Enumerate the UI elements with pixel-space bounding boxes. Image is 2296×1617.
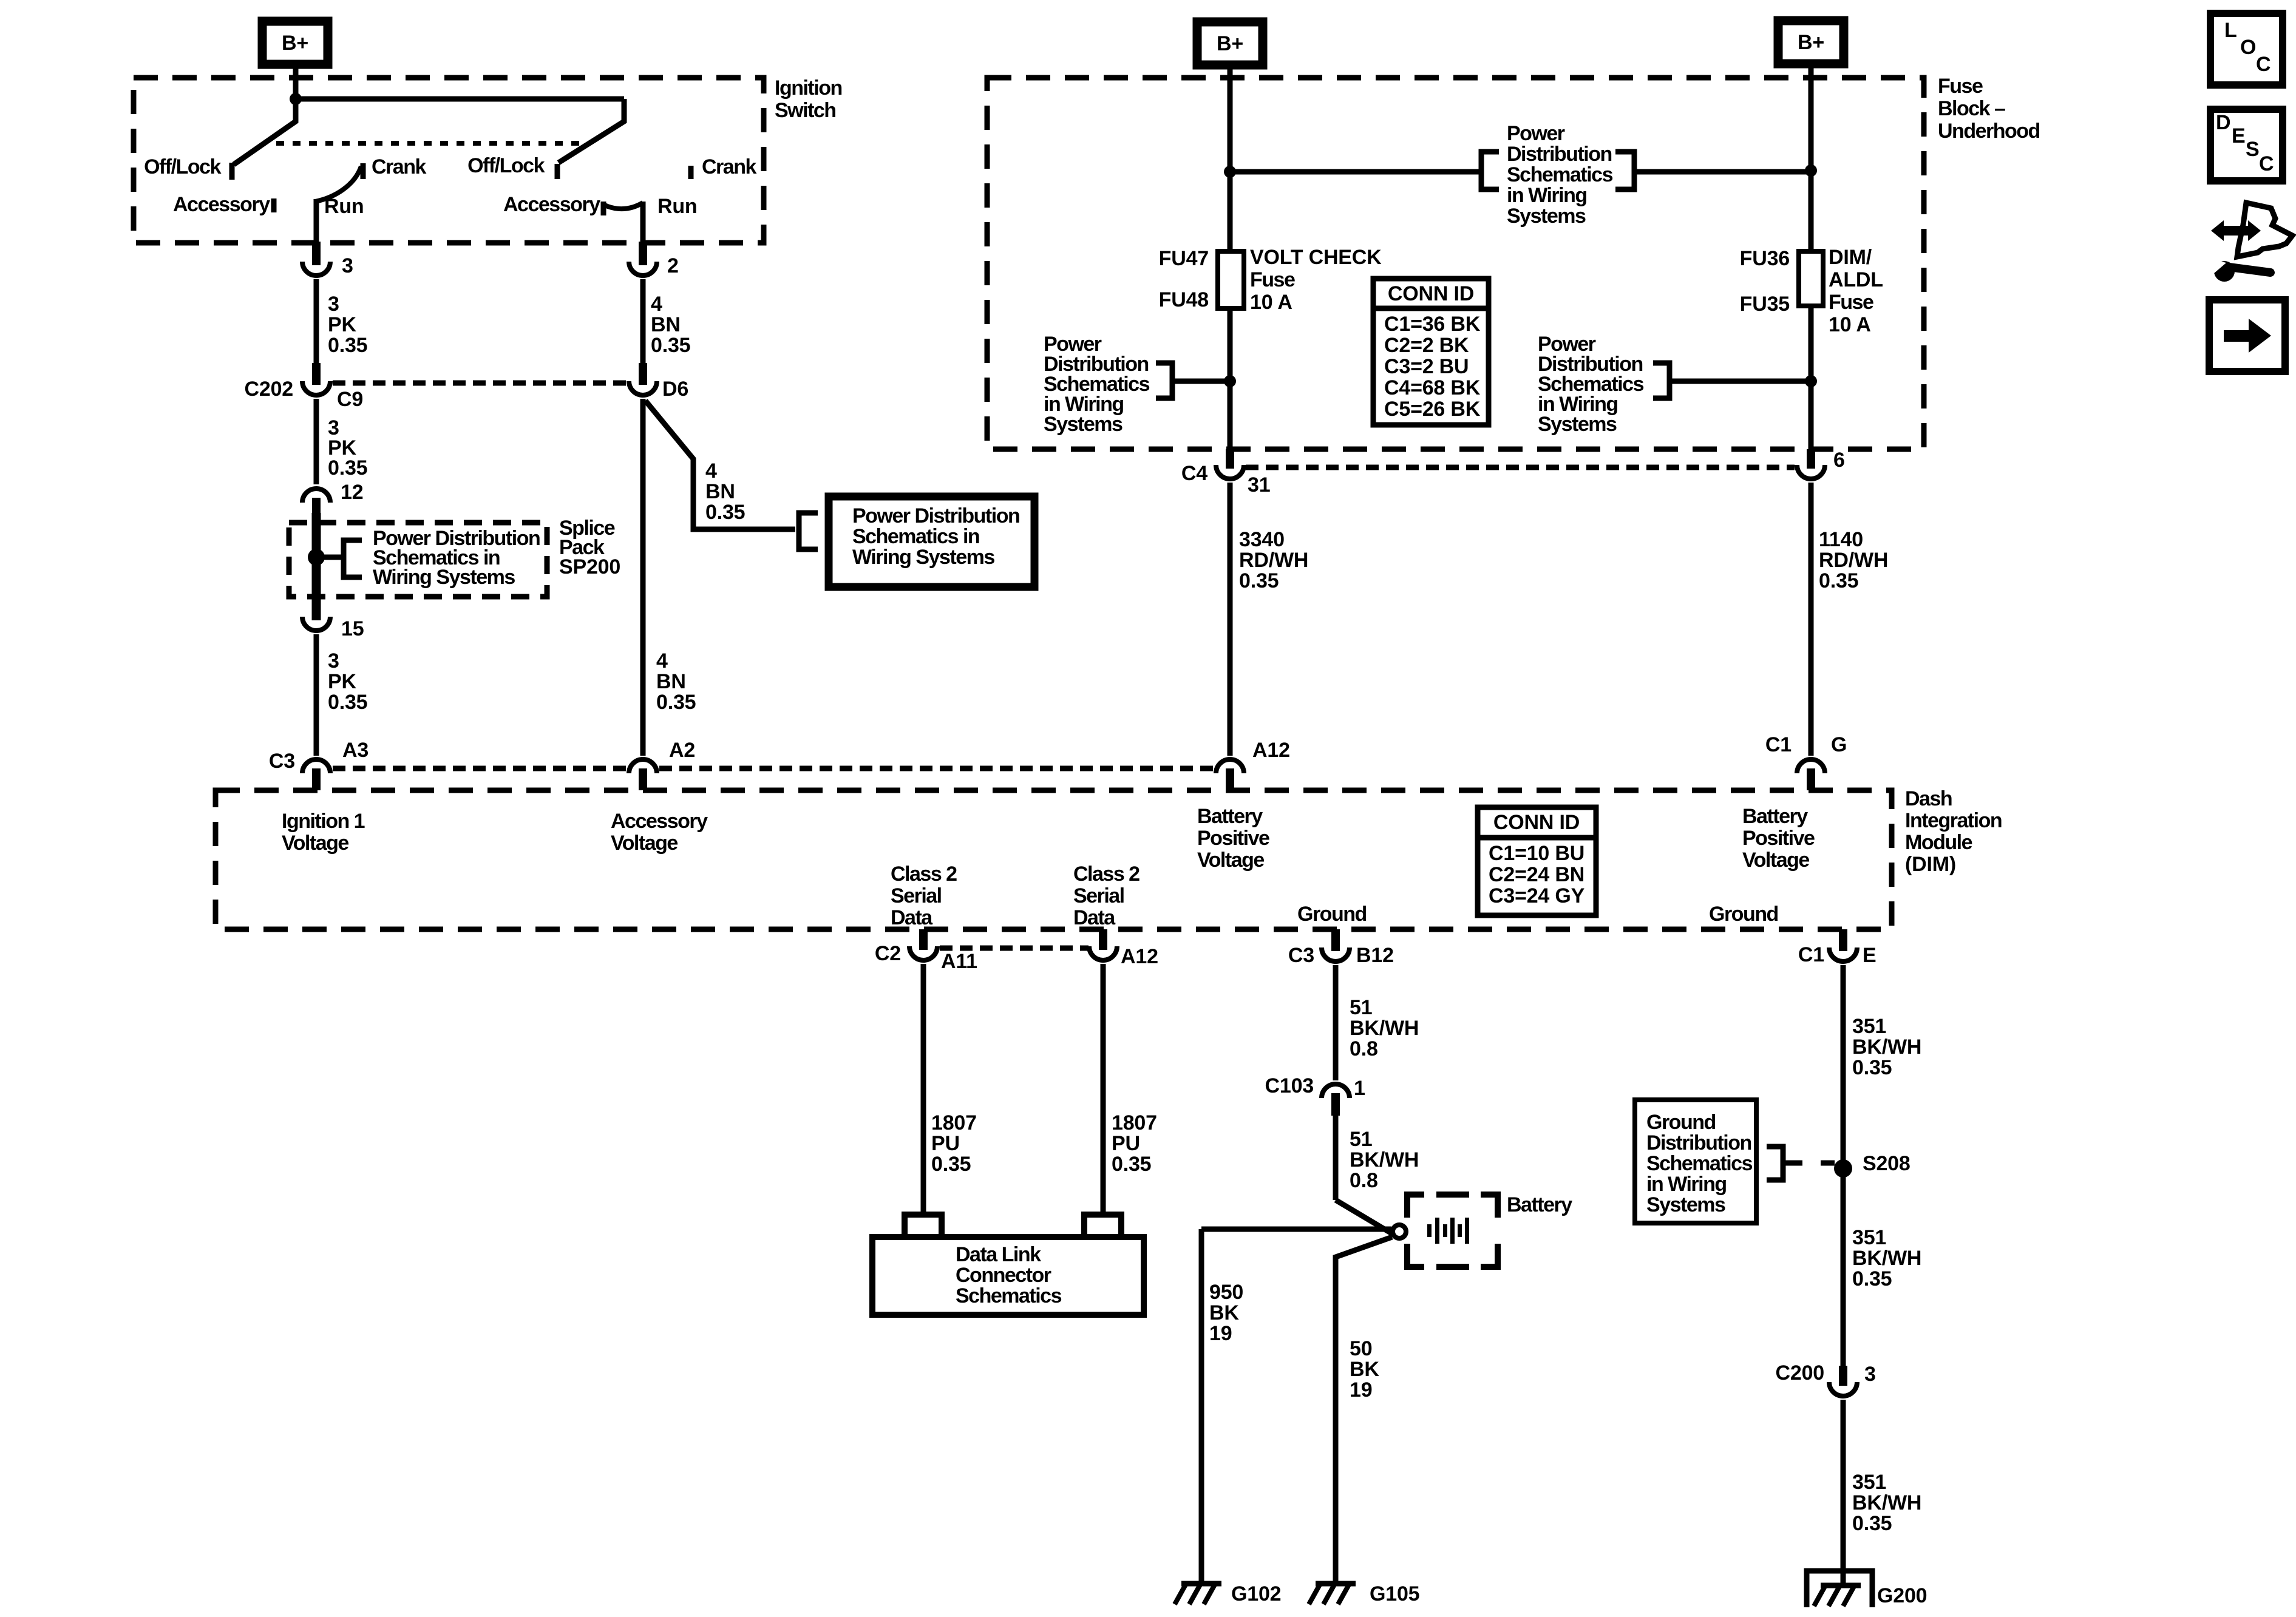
svg-text:FU48: FU48	[1159, 288, 1209, 311]
dotted connector line C202	[333, 381, 628, 386]
contact tick Off/Lock left	[229, 163, 235, 180]
connector pin A12 (DLC)	[1099, 929, 1107, 950]
svg-text:0.8: 0.8	[1350, 1037, 1378, 1060]
bracket power distribution (left)	[1156, 363, 1172, 398]
svg-text:0.35: 0.35	[328, 691, 367, 714]
svg-text:O: O	[2240, 36, 2256, 59]
svg-text:C2=24 BN: C2=24 BN	[1489, 863, 1584, 886]
svg-text:C2: C2	[875, 942, 901, 965]
svg-text:0.35: 0.35	[1239, 569, 1279, 592]
svg-text:19: 19	[1209, 1322, 1232, 1345]
wire 4 BN 0.35 (pin2 to D6)	[640, 279, 646, 363]
svg-text:BK/WH: BK/WH	[1852, 1247, 1921, 1270]
svg-text:351: 351	[1852, 1471, 1886, 1494]
svg-text:51: 51	[1350, 996, 1372, 1019]
node junction right feed	[1805, 164, 1817, 177]
dotted connector line C4 to 6	[1246, 465, 1795, 470]
svg-text:Wiring Systems: Wiring Systems	[852, 546, 994, 569]
svg-text:Block –: Block –	[1938, 97, 2005, 120]
wire 1807 PU 0.35 (A11)	[921, 964, 926, 1214]
splice pack SP200 box	[289, 523, 547, 597]
power symbol B+ (fuse FU36 feed)	[1778, 21, 1844, 64]
contact tick Accessory right	[601, 202, 606, 215]
svg-text:BK/WH: BK/WH	[1350, 1148, 1419, 1171]
svg-text:351: 351	[1852, 1015, 1886, 1038]
svg-text:Off/Lock: Off/Lock	[467, 154, 545, 177]
svg-text:S: S	[2246, 138, 2259, 161]
svg-text:51: 51	[1350, 1128, 1372, 1151]
connector C202 pin D6	[639, 363, 647, 371]
wire 1807 PU 0.35 (A12)	[1101, 964, 1106, 1214]
tick bracket to S208	[1784, 1161, 1802, 1166]
svg-text:D: D	[2216, 111, 2230, 134]
connector C202 pin C9	[312, 363, 321, 371]
svg-text:C202: C202	[245, 378, 293, 401]
connector pin 2 (ignition switch)	[639, 242, 647, 265]
node: B+ junction in ignition switch	[290, 93, 302, 105]
svg-text:Accessory: Accessory	[173, 193, 270, 216]
svg-text:C3=2 BU: C3=2 BU	[1384, 355, 1469, 378]
svg-text:Dash: Dash	[1905, 787, 1952, 810]
wire diagonal to battery junction	[1336, 1200, 1393, 1234]
connector C3 pin B12	[1331, 929, 1340, 951]
wire 3 PK 0.35 (pin3 to C202)	[314, 279, 319, 363]
svg-text:Ground: Ground	[1297, 903, 1367, 926]
svg-text:1: 1	[1354, 1077, 1365, 1100]
svg-text:0.35: 0.35	[1852, 1267, 1892, 1290]
svg-text:BK/WH: BK/WH	[1852, 1491, 1921, 1514]
svg-text:6: 6	[1833, 449, 1845, 472]
svg-text:BN: BN	[651, 313, 681, 336]
svg-text:Positive: Positive	[1197, 827, 1269, 850]
svg-text:Crank: Crank	[372, 155, 426, 178]
svg-text:BN: BN	[656, 670, 686, 693]
connector pin 6	[1807, 449, 1815, 469]
svg-text:C200: C200	[1776, 1361, 1824, 1385]
svg-text:3: 3	[328, 293, 339, 316]
svg-text:G200: G200	[1877, 1584, 1927, 1607]
wire 3 PK 0.35 (15 to A3)	[314, 634, 319, 756]
wiper curve Run right	[605, 203, 643, 209]
svg-text:15: 15	[341, 617, 364, 640]
svg-text:(DIM): (DIM)	[1905, 853, 1956, 876]
svg-text:Positive: Positive	[1742, 827, 1815, 850]
svg-text:Schematics in: Schematics in	[852, 525, 979, 548]
svg-text:3: 3	[342, 254, 353, 277]
wire junction to reference bracket	[1230, 169, 1481, 175]
wire 4 BN 0.35 (D6 to A2)	[640, 399, 646, 756]
svg-text:3: 3	[328, 649, 339, 673]
svg-text:C1: C1	[1798, 943, 1824, 966]
bracket ground distribution	[1767, 1147, 1783, 1180]
mechanical linkage dotted line	[276, 141, 582, 146]
ground distribution reference box	[1635, 1100, 1756, 1223]
connector C1 pin E	[1839, 929, 1847, 951]
wire B+ to fuse block (left)	[1228, 63, 1233, 172]
svg-text:Ground: Ground	[1646, 1111, 1716, 1134]
wire B+ to ignition switch	[293, 62, 299, 99]
svg-text:Power: Power	[1507, 122, 1565, 145]
svg-text:SP200: SP200	[559, 555, 620, 578]
svg-text:Ground: Ground	[1709, 903, 1778, 926]
svg-text:PU: PU	[931, 1132, 960, 1155]
connector pin A12 (DIM top)	[1216, 759, 1244, 773]
contact tick Crank left	[361, 163, 366, 179]
svg-text:A12: A12	[1252, 739, 1290, 762]
wire down to G102	[1199, 1229, 1204, 1584]
wire junction to right reference	[1671, 379, 1811, 384]
wire ignition feed bus	[296, 97, 624, 102]
svg-text:3: 3	[1864, 1363, 1876, 1386]
svg-text:BN: BN	[705, 480, 735, 503]
svg-text:Crank: Crank	[702, 155, 756, 178]
svg-text:C4=68 BK: C4=68 BK	[1384, 376, 1481, 399]
svg-text:4: 4	[656, 649, 668, 673]
svg-text:A2: A2	[669, 739, 695, 762]
svg-text:Voltage: Voltage	[282, 832, 348, 855]
contact tick Accessory left	[271, 198, 277, 212]
svg-text:ALDL: ALDL	[1829, 268, 1883, 291]
svg-text:351: 351	[1852, 1226, 1886, 1249]
svg-text:CONN ID: CONN ID	[1493, 811, 1580, 834]
wire 51 BK/WH 0.8 (B12 to C103)	[1333, 965, 1339, 1080]
svg-text:Fuse: Fuse	[1938, 75, 1983, 98]
svg-text:C4: C4	[1181, 462, 1207, 485]
wire Run left to pin 3	[314, 199, 319, 243]
svg-text:PK: PK	[328, 670, 356, 693]
battery symbol plates	[1427, 1224, 1432, 1237]
table CONN ID (fuse block)	[1373, 279, 1489, 425]
power symbol B+ (fuse FU47 feed)	[1197, 22, 1263, 65]
svg-text:4: 4	[705, 459, 717, 483]
wire 3340 RD/WH 0.35	[1228, 483, 1233, 756]
svg-text:2: 2	[667, 254, 679, 277]
wire Run right to pin 2	[640, 202, 646, 243]
svg-text:A11: A11	[941, 950, 977, 973]
ground G200	[1821, 1583, 1861, 1588]
svg-text:C5=26 BK: C5=26 BK	[1384, 398, 1481, 421]
svg-text:L: L	[2224, 19, 2237, 42]
svg-text:Schematics: Schematics	[956, 1284, 1062, 1307]
svg-text:FU36: FU36	[1740, 247, 1790, 270]
svg-text:4: 4	[651, 293, 662, 316]
svg-text:E: E	[1863, 944, 1876, 967]
svg-text:C: C	[2259, 152, 2274, 175]
reference bracket (power distribution box)	[799, 513, 818, 549]
svg-text:Fuse: Fuse	[1250, 268, 1295, 291]
node junction below FU47	[1224, 375, 1236, 387]
battery junction ring terminal	[1393, 1225, 1406, 1238]
svg-text:G102: G102	[1231, 1582, 1281, 1605]
icon DESC	[2210, 109, 2283, 181]
power symbol B+ (ignition feed)	[262, 21, 328, 64]
wire through fuse FU47	[1228, 172, 1233, 251]
svg-text:0.8: 0.8	[1350, 1169, 1378, 1192]
svg-text:C: C	[2256, 53, 2271, 76]
data link connector box	[872, 1237, 1144, 1315]
node splice S208	[1834, 1159, 1852, 1178]
svg-text:in Wiring: in Wiring	[1507, 184, 1587, 207]
svg-text:D6: D6	[662, 378, 688, 401]
svg-text:Voltage: Voltage	[1742, 849, 1809, 872]
svg-text:Accessory: Accessory	[611, 810, 708, 833]
svg-text:0.35: 0.35	[1852, 1512, 1892, 1535]
wire branch D6 to power distribution reference	[645, 401, 795, 529]
svg-text:BK/WH: BK/WH	[1350, 1017, 1419, 1040]
wire 351 BK/WH 0.35 (E to S208)	[1841, 965, 1846, 1168]
svg-text:B+: B+	[282, 32, 308, 55]
svg-text:Underhood: Underhood	[1938, 120, 2040, 143]
svg-text:Module: Module	[1905, 831, 1972, 854]
svg-text:RD/WH: RD/WH	[1239, 549, 1308, 572]
dash integration module box	[216, 790, 1892, 929]
ignition switch box	[134, 78, 764, 243]
icon adjust hand	[2237, 203, 2292, 257]
svg-text:S208: S208	[1863, 1152, 1911, 1175]
svg-text:PK: PK	[328, 313, 356, 336]
svg-text:DIM/: DIM/	[1829, 246, 1872, 269]
svg-text:Systems: Systems	[1538, 413, 1617, 436]
svg-text:B+: B+	[1217, 32, 1243, 55]
svg-text:CONN ID: CONN ID	[1388, 282, 1474, 305]
svg-text:Class 2: Class 2	[891, 863, 957, 886]
fuse FU47 VOLT CHECK	[1218, 251, 1244, 308]
svg-text:10 A: 10 A	[1250, 291, 1292, 314]
terminal socket DLC left	[905, 1215, 942, 1237]
icon arrow box	[2209, 300, 2285, 371]
wiper curve Run left	[315, 166, 361, 202]
svg-text:C103: C103	[1265, 1074, 1314, 1097]
svg-text:0.35: 0.35	[656, 691, 696, 714]
svg-text:B12: B12	[1356, 944, 1394, 967]
svg-text:0.35: 0.35	[328, 334, 367, 357]
svg-text:Off/Lock: Off/Lock	[144, 155, 221, 178]
svg-text:19: 19	[1350, 1378, 1372, 1402]
svg-text:Ignition: Ignition	[775, 76, 842, 100]
wiper wire left switch (Off/Lock)	[234, 99, 296, 164]
svg-text:Class 2: Class 2	[1073, 863, 1140, 886]
svg-text:Schematics: Schematics	[1507, 163, 1613, 186]
wire junction to left reference	[1174, 379, 1230, 384]
svg-text:0.35: 0.35	[651, 334, 690, 357]
ground G102	[1181, 1581, 1221, 1587]
svg-text:Battery: Battery	[1742, 805, 1808, 828]
svg-text:Serial: Serial	[1073, 884, 1124, 907]
wire B+ to fuse block (right)	[1809, 61, 1814, 171]
svg-text:VOLT CHECK: VOLT CHECK	[1250, 246, 1382, 269]
svg-text:50: 50	[1350, 1337, 1372, 1360]
svg-text:0.35: 0.35	[328, 456, 367, 480]
svg-text:Data: Data	[891, 906, 933, 929]
icon wrench	[2214, 261, 2235, 282]
dotted connector line A3-A2-A12	[333, 766, 628, 771]
svg-text:Voltage: Voltage	[611, 832, 678, 855]
svg-text:10 A: 10 A	[1829, 313, 1871, 336]
svg-text:Distribution: Distribution	[1646, 1131, 1751, 1154]
svg-text:in Wiring: in Wiring	[1646, 1173, 1727, 1196]
svg-text:FU47: FU47	[1159, 247, 1209, 270]
wire through fuse FU36	[1809, 171, 1814, 251]
svg-text:1140: 1140	[1819, 528, 1863, 551]
node junction left feed	[1224, 166, 1236, 178]
svg-text:31: 31	[1248, 473, 1270, 497]
bracket power distribution (right)	[1653, 363, 1669, 398]
svg-text:A12: A12	[1121, 945, 1158, 968]
svg-text:950: 950	[1209, 1281, 1243, 1304]
svg-text:Switch: Switch	[775, 99, 836, 122]
svg-text:B+: B+	[1798, 31, 1824, 54]
connector C1 pin G	[1797, 759, 1825, 773]
fuse block underhood box	[987, 78, 1924, 449]
svg-text:Data Link: Data Link	[956, 1243, 1041, 1266]
wire diagonal battery junction to G105 branch	[1336, 1237, 1392, 1584]
ground G200 shield	[1807, 1571, 1872, 1607]
connector pin A2	[629, 759, 657, 773]
svg-text:1807: 1807	[931, 1111, 977, 1134]
node splice junction	[308, 549, 325, 566]
connector C4 pin 31	[1226, 449, 1234, 469]
svg-text:Connector: Connector	[956, 1264, 1051, 1287]
connector C103 pin 1	[1322, 1084, 1350, 1098]
svg-text:Ignition 1: Ignition 1	[282, 810, 365, 833]
reference box Power Distribution Schematics	[829, 497, 1034, 587]
wiper wire right switch (Off/Lock)	[559, 99, 624, 163]
svg-text:PU: PU	[1112, 1132, 1140, 1155]
svg-text:Distribution: Distribution	[1507, 143, 1612, 166]
connector 12 (splice pack)	[302, 489, 330, 503]
connector pin 3 (ignition switch)	[312, 242, 321, 265]
connector C2 pin A11	[919, 929, 928, 950]
icon LOC	[2210, 13, 2283, 85]
svg-text:12: 12	[341, 481, 363, 504]
svg-text:RD/WH: RD/WH	[1819, 549, 1888, 572]
fuse FU36 DIM/ALDL	[1799, 251, 1823, 306]
icon double arrow	[2211, 220, 2261, 241]
terminal socket DLC right	[1084, 1215, 1121, 1237]
svg-text:G: G	[1831, 733, 1847, 756]
svg-text:Battery: Battery	[1507, 1193, 1572, 1216]
wire reference to right column	[1634, 169, 1811, 175]
svg-text:C1: C1	[1765, 733, 1792, 756]
svg-text:C2=2 BK: C2=2 BK	[1384, 334, 1469, 357]
svg-text:Battery: Battery	[1197, 805, 1263, 828]
ground G105	[1316, 1581, 1356, 1587]
svg-text:Power Distribution: Power Distribution	[852, 504, 1019, 527]
bracket power distribution (top left)	[1481, 152, 1499, 189]
bracket power distribution (top right)	[1615, 152, 1634, 189]
svg-text:Data: Data	[1073, 906, 1116, 929]
svg-text:C3=24 GY: C3=24 GY	[1489, 884, 1585, 907]
svg-text:E: E	[2232, 124, 2245, 147]
svg-text:0.35: 0.35	[931, 1153, 971, 1176]
svg-text:C3: C3	[269, 750, 295, 773]
svg-text:C3: C3	[1288, 944, 1314, 967]
svg-text:Integration: Integration	[1905, 809, 2002, 832]
svg-text:BK: BK	[1350, 1358, 1379, 1381]
svg-text:Voltage: Voltage	[1197, 849, 1264, 872]
svg-text:BK: BK	[1209, 1301, 1239, 1324]
connector 15	[312, 598, 321, 620]
svg-text:Serial: Serial	[891, 884, 942, 907]
battery dashed box	[1407, 1195, 1424, 1218]
svg-text:Run: Run	[657, 195, 698, 218]
wire 1140 RD/WH 0.35	[1809, 483, 1814, 756]
splice bus wire	[312, 513, 321, 620]
svg-text:Systems: Systems	[1646, 1193, 1725, 1216]
svg-text:1807: 1807	[1112, 1111, 1157, 1134]
wire from G102 branch	[1201, 1227, 1391, 1232]
wire 351 BK/WH 0.35 (S208 to C200)	[1841, 1168, 1846, 1366]
contact tick Off/Lock right	[555, 164, 560, 179]
svg-text:Accessory: Accessory	[503, 193, 600, 216]
svg-text:Systems: Systems	[1044, 413, 1123, 436]
svg-text:G105: G105	[1370, 1582, 1419, 1605]
svg-text:0.35: 0.35	[1819, 569, 1858, 592]
bracket splice reference	[344, 540, 362, 577]
connector C200 pin 3	[1839, 1366, 1847, 1386]
connector C3 pin A3	[302, 759, 330, 773]
svg-text:Wiring Systems: Wiring Systems	[373, 566, 515, 589]
wire 351 BK/WH 0.35 (C200 to G200)	[1841, 1400, 1846, 1585]
table CONN ID (DIM)	[1478, 807, 1596, 915]
svg-text:C1=10 BU: C1=10 BU	[1489, 842, 1584, 865]
svg-text:Schematics: Schematics	[1646, 1152, 1753, 1175]
wire 3 PK 0.35 (C202 to splice)	[314, 399, 319, 484]
dotted connector line C2 to A12	[940, 946, 1089, 951]
svg-text:Fuse: Fuse	[1829, 291, 1873, 314]
svg-text:0.35: 0.35	[705, 501, 745, 524]
svg-text:C9: C9	[337, 388, 363, 411]
wire 51 BK/WH 0.8 (C103 to battery)	[1333, 1114, 1339, 1200]
contact tick Crank right	[688, 166, 694, 179]
svg-text:A3: A3	[342, 739, 369, 762]
svg-text:C1=36 BK: C1=36 BK	[1384, 313, 1481, 336]
svg-text:3340: 3340	[1239, 528, 1285, 551]
svg-text:0.35: 0.35	[1852, 1056, 1892, 1079]
svg-text:0.35: 0.35	[1112, 1153, 1151, 1176]
node junction below FU36	[1805, 375, 1817, 387]
svg-text:FU35: FU35	[1740, 293, 1790, 316]
svg-text:Systems: Systems	[1507, 205, 1586, 228]
svg-text:BK/WH: BK/WH	[1852, 1036, 1921, 1059]
tick splice to bracket	[316, 555, 344, 560]
